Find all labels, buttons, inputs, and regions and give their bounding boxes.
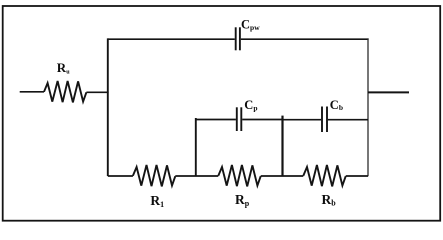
svg-text:Rp: Rp [235,192,250,208]
wire right rail [367,38,369,176]
wire top right segment [241,38,369,40]
node junction left of Cp loop [195,118,197,176]
wire Cb branch left [283,119,322,121]
node junction between Rp and Rb [281,116,283,177]
wire bottom segment 2 [175,175,218,177]
wire bottom segment 3 [261,175,304,177]
capacitor Cb [322,107,327,133]
wire bottom segment 1 [108,175,133,177]
capacitor Cpw [236,27,240,50]
svg-text:Cpw: Cpw [241,17,260,31]
resistor Ru [44,81,86,102]
wire left lead [20,91,44,93]
wire Ru to left rail [86,91,108,93]
wire bottom segment 4 [346,175,368,177]
resistor R1 [133,165,175,186]
svg-text:Cb: Cb [330,98,343,112]
svg-text:Ru: Ru [57,60,70,75]
wire left rail [107,38,109,176]
svg-text:Cp: Cp [244,98,257,113]
resistor Rb [303,165,345,186]
svg-text:Rb: Rb [322,192,337,208]
capacitor Cp [237,107,242,131]
resistor Rp [218,165,260,186]
svg-text:R1: R1 [150,193,164,209]
wire Cb branch right [328,119,368,121]
wire Cp branch left [196,119,236,121]
wire Cp branch right [242,119,282,121]
wire right lead [368,91,409,93]
wire top left segment [108,38,235,40]
